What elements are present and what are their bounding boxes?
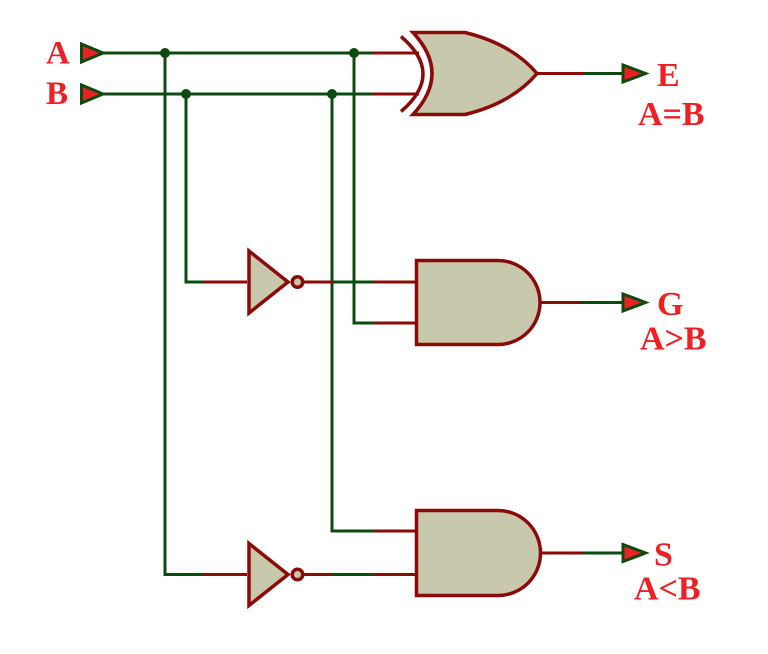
output terminal S arrow bbox=[623, 545, 646, 562]
pin stub XOR input B bbox=[373, 93, 419, 96]
output terminal G arrow bbox=[623, 294, 646, 311]
input terminal B arrow bbox=[82, 85, 104, 103]
pin stub AND1 lower input bbox=[374, 322, 417, 325]
not gate U4 bubble bbox=[292, 569, 303, 580]
svg-text:A>B: A>B bbox=[640, 321, 707, 358]
svg-text:A<B: A<B bbox=[634, 571, 701, 608]
wire AND2 output to terminal S bbox=[583, 552, 624, 555]
wire AND1 output to terminal G bbox=[581, 301, 624, 304]
wire B branch 2 down to AND2 upper input bbox=[332, 94, 374, 531]
wire A horizontal bbox=[102, 52, 373, 55]
and gate U3 body bbox=[417, 261, 541, 345]
pin stub NOT2 output bbox=[304, 573, 333, 576]
pin stub AND1 upper input bbox=[374, 281, 417, 284]
svg-text:S: S bbox=[654, 537, 673, 574]
not gate U4 triangle bbox=[249, 544, 288, 606]
wire NOT1 output to AND1 bbox=[332, 281, 374, 284]
xor gate U1 extra input arc bbox=[401, 37, 423, 112]
wire A branch 2 down to AND1 lower input bbox=[354, 53, 374, 323]
junction node A2 bbox=[349, 48, 359, 58]
svg-text:G: G bbox=[657, 286, 683, 323]
pin stub XOR input A bbox=[373, 52, 419, 55]
output terminal E arrow bbox=[623, 65, 646, 82]
pin stub AND2 upper input bbox=[374, 530, 417, 533]
and gate U5 body bbox=[417, 511, 541, 596]
svg-text:A=B: A=B bbox=[638, 96, 705, 133]
xor gate U1 body bbox=[413, 33, 537, 115]
junction node B1 bbox=[181, 89, 191, 99]
pin stub AND2 lower input bbox=[374, 573, 417, 576]
wire A branch 1 down to NOT2 bbox=[165, 53, 204, 575]
not gate U2 triangle bbox=[249, 251, 288, 313]
svg-text:E: E bbox=[657, 57, 680, 94]
junction node A1 bbox=[160, 48, 170, 58]
pin stub AND1 output bbox=[540, 301, 581, 304]
wire NOT2 output to AND2 bbox=[332, 573, 374, 576]
pin stub NOT2 input bbox=[204, 573, 247, 576]
svg-text:B: B bbox=[46, 76, 68, 112]
wire B branch 1 down to NOT1 bbox=[186, 94, 205, 282]
pin stub AND2 output bbox=[540, 552, 583, 555]
pin stub NOT1 output bbox=[304, 281, 333, 284]
not gate U2 bubble bbox=[292, 277, 303, 288]
svg-text:A: A bbox=[46, 36, 70, 72]
pin stub NOT1 input bbox=[204, 281, 247, 284]
pin stub XOR output bbox=[536, 72, 584, 75]
wire XOR output to terminal E bbox=[584, 72, 624, 75]
junction node B2 bbox=[327, 89, 337, 99]
input terminal A arrow bbox=[82, 44, 104, 62]
wire B horizontal bbox=[102, 93, 373, 96]
